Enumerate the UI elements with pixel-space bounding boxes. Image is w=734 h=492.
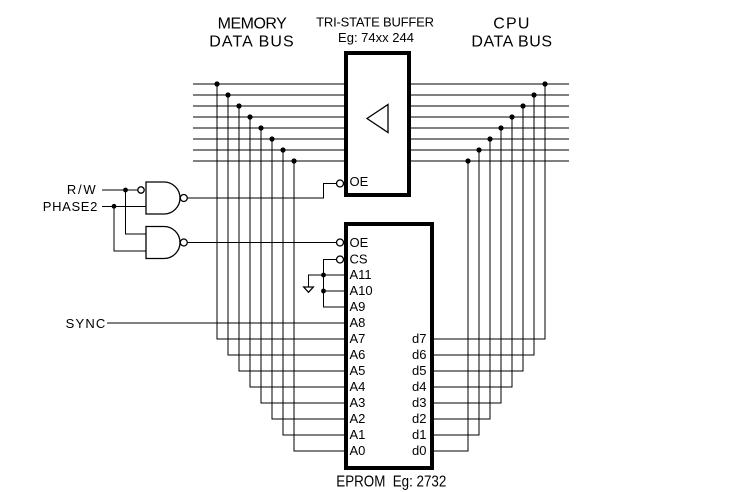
junction dot cpu bus line 4 / d3 branch xyxy=(498,125,503,130)
wire memory data bus line 5 xyxy=(193,138,344,140)
wire bus line 2 to EPROM pin A5 xyxy=(239,106,344,371)
wire CS tie bracket xyxy=(324,260,345,308)
buffer direction triangle xyxy=(367,105,388,133)
svg-text:CS: CS xyxy=(350,251,368,266)
junction dot bus line 7 / A0 branch xyxy=(291,158,296,163)
svg-text:A1: A1 xyxy=(350,427,366,442)
svg-text:A5: A5 xyxy=(350,363,366,378)
wire bus line 7 to EPROM pin A0 xyxy=(294,161,344,451)
svg-text:A4: A4 xyxy=(350,379,366,394)
wire gate G2 output to EPROM OE xyxy=(187,242,336,244)
label MEMORY DATA BUS xyxy=(209,16,295,51)
wire bus line 0 to EPROM pin A7 xyxy=(217,84,344,339)
wire EPROM pin d1 to cpu bus line 6 xyxy=(434,150,479,435)
wire R/W input xyxy=(102,189,138,191)
wire memory data bus line 2 xyxy=(193,105,344,107)
svg-text:PHASE2: PHASE2 xyxy=(43,199,98,214)
svg-text:Eg: 74xx 244: Eg: 74xx 244 xyxy=(338,30,414,45)
junction dot CS bracket / A11 xyxy=(321,273,326,278)
junction dot cpu bus line 7 / d0 branch xyxy=(465,158,470,163)
wire gate G1 output to buffer OE xyxy=(187,184,336,199)
wire EPROM pin d0 to cpu bus line 7 xyxy=(434,161,468,451)
wire EPROM pin d5 to cpu bus line 2 xyxy=(434,106,523,371)
wire EPROM pin d7 to cpu bus line 0 xyxy=(434,84,545,339)
svg-text:d6: d6 xyxy=(412,347,426,362)
wire ground stub xyxy=(309,275,324,287)
junction dot bus line 3 / A4 branch xyxy=(247,114,252,119)
svg-text:EPROM Eg: 2732: EPROM Eg: 2732 xyxy=(336,474,446,491)
svg-text:A3: A3 xyxy=(350,395,366,410)
wire cpu data bus line 1 xyxy=(411,94,569,96)
wire memory data bus line 0 xyxy=(193,83,344,85)
svg-text:A10: A10 xyxy=(350,283,373,298)
tri-state buffer U1 box xyxy=(346,53,409,195)
wire bus line 5 to EPROM pin A2 xyxy=(272,139,344,419)
svg-text:DATA BUS: DATA BUS xyxy=(471,34,552,51)
wire EPROM pin d2 to cpu bus line 5 xyxy=(434,139,490,419)
svg-text:A0: A0 xyxy=(350,443,366,458)
wire cpu data bus line 5 xyxy=(411,138,569,140)
label TRI-STATE BUFFER Eg: 74xx 244 xyxy=(316,14,434,45)
buffer pin OE bubble xyxy=(337,180,344,187)
wire SYNC to EPROM A8 xyxy=(107,322,344,324)
wire PHASE2 input to gate G1 xyxy=(102,205,146,207)
svg-text:d3: d3 xyxy=(412,395,426,410)
junction dot bus line 5 / A2 branch xyxy=(269,136,274,141)
junction dot cpu bus line 1 / d6 branch xyxy=(531,92,536,97)
junction dot cpu bus line 0 / d7 branch xyxy=(542,81,547,86)
junction dot CS bracket / A10 xyxy=(321,289,326,294)
svg-text:SYNC: SYNC xyxy=(66,316,107,331)
junction dot PHASE2 branch xyxy=(112,204,117,209)
svg-text:d1: d1 xyxy=(412,427,426,442)
svg-text:A2: A2 xyxy=(350,411,366,426)
svg-text:R/W: R/W xyxy=(67,182,98,197)
junction dot bus line 0 / A7 branch xyxy=(214,81,219,86)
svg-text:OE: OE xyxy=(350,174,369,189)
wire memory data bus line 4 xyxy=(193,127,344,129)
wire PHASE2 branch to gate G2 xyxy=(114,206,146,251)
EPROM pin CS bubble xyxy=(337,256,344,263)
junction dot cpu bus line 2 / d5 branch xyxy=(520,103,525,108)
ground symbol xyxy=(304,287,314,292)
svg-text:A7: A7 xyxy=(350,331,366,346)
wire bus line 6 to EPROM pin A1 xyxy=(283,150,344,435)
svg-text:d2: d2 xyxy=(412,411,426,426)
wire EPROM pin d6 to cpu bus line 1 xyxy=(434,95,534,355)
junction dot bus line 1 / A6 branch xyxy=(225,92,230,97)
svg-text:A11: A11 xyxy=(350,267,372,282)
svg-text:A6: A6 xyxy=(350,347,366,362)
junction dot R/W branch xyxy=(123,188,128,193)
NAND gate G2 xyxy=(146,227,187,259)
junction dot cpu bus line 6 / d1 branch xyxy=(476,147,481,152)
svg-text:A9: A9 xyxy=(350,299,366,314)
wire cpu data bus line 4 xyxy=(411,127,569,129)
wire bus line 1 to EPROM pin A6 xyxy=(228,95,344,355)
svg-text:CPU: CPU xyxy=(493,16,530,33)
wire memory data bus line 1 xyxy=(193,94,344,96)
wire R/W branch to gate G2 xyxy=(126,190,147,234)
svg-text:d0: d0 xyxy=(412,443,426,458)
junction dot cpu bus line 3 / d4 branch xyxy=(509,114,514,119)
junction dot bus line 6 / A1 branch xyxy=(280,147,285,152)
svg-text:DATA BUS: DATA BUS xyxy=(209,34,295,51)
label CPU DATA BUS xyxy=(471,16,552,51)
wire memory data bus line 6 xyxy=(193,149,344,151)
EPROM pin OE bubble xyxy=(337,239,344,246)
wire cpu data bus line 2 xyxy=(411,105,569,107)
svg-text:MEMORY: MEMORY xyxy=(218,16,288,33)
svg-text:d5: d5 xyxy=(412,363,426,378)
wire memory data bus line 3 xyxy=(193,116,344,118)
wire memory data bus line 7 xyxy=(193,160,344,162)
EPROM U2 box xyxy=(346,224,432,468)
svg-text:OE: OE xyxy=(350,235,369,250)
wire cpu data bus line 7 xyxy=(411,160,569,162)
junction dot bus line 4 / A3 branch xyxy=(258,125,263,130)
wire cpu data bus line 0 xyxy=(411,83,569,85)
wire cpu data bus line 6 xyxy=(411,149,569,151)
svg-text:d4: d4 xyxy=(412,379,426,394)
svg-text:d7: d7 xyxy=(412,331,426,346)
svg-text:TRI-STATE BUFFER: TRI-STATE BUFFER xyxy=(316,14,434,29)
wire EPROM pin d4 to cpu bus line 3 xyxy=(434,117,512,387)
svg-text:A8: A8 xyxy=(350,315,366,330)
junction dot cpu bus line 5 / d2 branch xyxy=(487,136,492,141)
NAND gate G1 xyxy=(138,182,188,214)
wire bus line 3 to EPROM pin A4 xyxy=(250,117,344,387)
junction dot bus line 2 / A5 branch xyxy=(236,103,241,108)
wire bus line 4 to EPROM pin A3 xyxy=(261,128,344,403)
wire cpu data bus line 3 xyxy=(411,116,569,118)
wire EPROM pin d3 to cpu bus line 4 xyxy=(434,128,501,403)
